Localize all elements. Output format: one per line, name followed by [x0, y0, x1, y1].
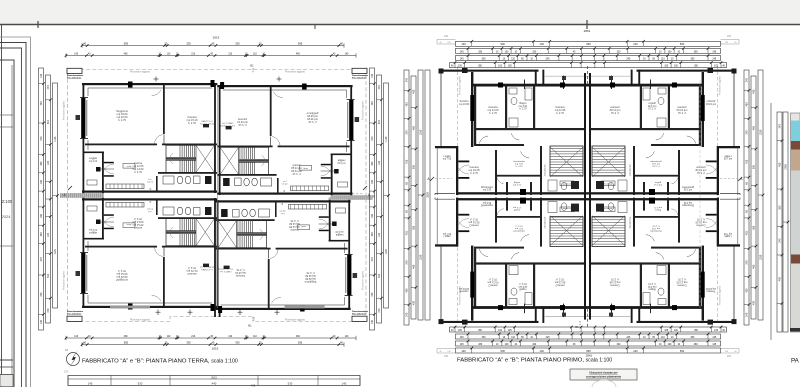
- party wall tails below bottom wall: [214, 308, 216, 317]
- svg-text:470: 470: [47, 85, 50, 90]
- svg-text:150: 150: [444, 355, 449, 358]
- stamp box: [570, 369, 637, 380]
- far right vchain: [777, 112, 782, 332]
- svg-text:N: N: [65, 348, 67, 352]
- svg-text:425: 425: [746, 159, 749, 164]
- svg-text:Proiezione aggetto: Proiezione aggetto: [63, 270, 66, 290]
- svg-text:355: 355: [413, 164, 416, 169]
- svg-text:130: 130: [371, 73, 374, 78]
- right plan unit top-left: [435, 68, 588, 197]
- left plan right vertical chain: [370, 68, 375, 330]
- svg-text:370: 370: [40, 136, 43, 141]
- svg-text:465: 465: [251, 384, 256, 387]
- svg-text:150: 150: [727, 355, 732, 358]
- top frame line: [0, 24, 800, 26]
- svg-text:2500: 2500: [427, 192, 430, 198]
- svg-text:595: 595: [298, 42, 303, 46]
- svg-text:370: 370: [371, 136, 374, 141]
- svg-text:1250: 1250: [760, 129, 763, 135]
- svg-text:450: 450: [406, 288, 409, 293]
- svg-text:240: 240: [746, 130, 749, 135]
- svg-text:730: 730: [40, 292, 43, 297]
- right plan right vchains: [744, 70, 749, 325]
- svg-text:1125: 1125: [54, 136, 57, 142]
- svg-text:PA: PA: [791, 358, 800, 365]
- svg-text:2:100: 2:100: [2, 199, 13, 204]
- unit C bottom-left (mirror): [60, 196, 217, 312]
- svg-text:240: 240: [406, 260, 409, 265]
- svg-text:450: 450: [779, 277, 782, 282]
- svg-text:120: 120: [47, 232, 50, 237]
- top center cross markers: [154, 77, 282, 82]
- svg-text:530: 530: [680, 349, 685, 353]
- svg-text:240: 240: [746, 260, 749, 265]
- svg-text:400: 400: [753, 89, 756, 94]
- svg-text:Fino abbattute: Fino abbattute: [352, 313, 367, 316]
- svg-text:B1: B1: [575, 325, 579, 329]
- svg-text:730: 730: [371, 101, 374, 106]
- svg-text:B1: B1: [250, 64, 254, 68]
- north arrow: [67, 353, 80, 366]
- svg-text:Proiezione aggetto: Proiezione aggetto: [285, 319, 306, 322]
- left plan top chain row2: [66, 55, 356, 57]
- svg-text:FABBRICATO “A” e “B”: PIANTA P: FABBRICATO “A” e “B”: PIANTA PIANO PRIMO…: [457, 358, 612, 364]
- svg-text:530: 530: [288, 382, 293, 386]
- unit B top-right (mirror, slight offset): [217, 82, 374, 198]
- svg-text:140: 140: [633, 42, 638, 46]
- svg-text:530: 530: [680, 42, 685, 46]
- svg-text:1250: 1250: [760, 254, 763, 260]
- left plan left vertical chain: [39, 68, 44, 330]
- adjacent sheet title block fragments: [0, 114, 13, 116]
- svg-text:400: 400: [413, 89, 416, 94]
- svg-text:240: 240: [406, 130, 409, 135]
- right plan center dashed marks: [587, 66, 589, 84]
- svg-text:1125: 1125: [54, 249, 57, 255]
- svg-text:460: 460: [413, 264, 416, 269]
- svg-text:130: 130: [40, 319, 43, 324]
- svg-text:120: 120: [378, 232, 381, 237]
- svg-text:595: 595: [298, 341, 303, 345]
- unit D bottom-right (mirror, slight offset): [215, 198, 372, 314]
- svg-text:1125: 1125: [385, 249, 388, 255]
- left plan: dashed overhang outline (stepped at bottom center): [68, 70, 367, 322]
- svg-text:130: 130: [371, 319, 374, 324]
- right plan unit top-right: [588, 68, 741, 197]
- svg-text:FABBRICATO “A” e “B”: PIANTA P: FABBRICATO “A” e “B”: PIANTA PIANO TERRA…: [82, 359, 238, 365]
- svg-text:B1: B1: [248, 324, 252, 328]
- svg-text:425: 425: [406, 231, 409, 236]
- svg-text:140: 140: [540, 349, 545, 353]
- svg-text:240: 240: [406, 78, 409, 83]
- left plan bottom chain row2: [82, 344, 344, 346]
- unit A top-left: [60, 80, 217, 196]
- svg-text:Proiezione aggetto: Proiezione aggetto: [130, 71, 151, 74]
- faint stamp: [592, 380, 616, 387]
- svg-text:730: 730: [371, 292, 374, 297]
- svg-text:425: 425: [406, 159, 409, 164]
- left plan bottom chain row1: [66, 337, 356, 339]
- downpipe cross markers bottom: [156, 310, 280, 316]
- far right vline: [770, 103, 772, 340]
- svg-text:Proiezione aggetto: Proiezione aggetto: [459, 75, 462, 95]
- svg-text:120: 120: [47, 160, 50, 165]
- svg-text:140: 140: [461, 42, 466, 46]
- svg-text:730: 730: [40, 101, 43, 106]
- svg-text:470: 470: [47, 308, 50, 313]
- svg-text:150: 150: [727, 35, 732, 38]
- svg-text:460: 460: [753, 126, 756, 131]
- svg-text:530: 530: [501, 42, 506, 46]
- svg-text:2015: 2015: [211, 376, 217, 380]
- right plan unit bottom-left: [435, 196, 588, 325]
- svg-text:Proiezione aggetto: Proiezione aggetto: [285, 71, 306, 74]
- svg-text:A´: A´: [63, 193, 66, 197]
- svg-text:Ubicazioni ricavate per: Ubicazioni ricavate per: [589, 371, 617, 375]
- svg-text:300: 300: [371, 232, 374, 237]
- svg-text:470: 470: [378, 308, 381, 313]
- svg-text:530: 530: [138, 382, 143, 386]
- svg-text:400: 400: [413, 301, 416, 306]
- svg-text:440: 440: [212, 382, 217, 386]
- svg-text:510: 510: [378, 273, 381, 278]
- svg-text:160: 160: [371, 179, 374, 184]
- frame tick marks: [37, 21, 39, 28]
- svg-text:140: 140: [633, 349, 638, 353]
- svg-text:2024: 2024: [2, 214, 12, 219]
- svg-text:Proiezione aggetto: Proiezione aggetto: [362, 270, 365, 290]
- svg-text:510: 510: [47, 273, 50, 278]
- svg-text:240: 240: [746, 312, 749, 317]
- svg-text:470: 470: [378, 85, 381, 90]
- svg-text:510: 510: [378, 119, 381, 124]
- adjacent sheet left edge nested frames: [1, 25, 3, 387]
- svg-text:130: 130: [40, 73, 43, 78]
- svg-text:460: 460: [753, 264, 756, 269]
- svg-text:330: 330: [186, 42, 191, 46]
- bottom wall window sections: [110, 306, 150, 309]
- top sheet band: [0, 0, 800, 24]
- svg-text:300: 300: [40, 161, 43, 166]
- svg-text:595: 595: [124, 341, 129, 345]
- svg-text:Fino abbattute: Fino abbattute: [67, 77, 82, 80]
- svg-text:595: 595: [124, 42, 129, 46]
- svg-text:665: 665: [586, 349, 591, 353]
- svg-text:2861: 2861: [584, 29, 591, 33]
- svg-text:355: 355: [753, 225, 756, 230]
- adjacent sheet bottom corner: [0, 359, 13, 361]
- right plan unit bottom-right: [588, 196, 741, 325]
- svg-text:350: 350: [779, 205, 782, 210]
- svg-text:355: 355: [753, 164, 756, 169]
- svg-text:370: 370: [40, 257, 43, 262]
- svg-text:240: 240: [779, 124, 782, 129]
- svg-text:150: 150: [444, 35, 449, 38]
- svg-text:450: 450: [746, 288, 749, 293]
- svg-text:Proiezione aggetto: Proiezione aggetto: [130, 319, 151, 322]
- svg-text:140: 140: [540, 42, 545, 46]
- left plan center seam vertical: [216, 83, 218, 308]
- svg-text:145: 145: [88, 382, 93, 386]
- svg-text:140: 140: [461, 349, 466, 353]
- right plan left vchains: [404, 70, 409, 325]
- svg-text:150: 150: [64, 370, 69, 374]
- svg-text:Proiezione aggetto: Proiezione aggetto: [718, 285, 721, 305]
- svg-text:510: 510: [47, 119, 50, 124]
- svg-text:425: 425: [746, 231, 749, 236]
- right plan dashed proiezione right: [699, 80, 701, 310]
- corner label boxes: [67, 68, 82, 73]
- svg-text:Proiezione aggetto: Proiezione aggetto: [718, 75, 721, 95]
- svg-text:300: 300: [40, 232, 43, 237]
- svg-text:330: 330: [235, 42, 240, 46]
- svg-text:145: 145: [342, 382, 347, 386]
- svg-text:2015: 2015: [213, 36, 220, 40]
- svg-text:240: 240: [779, 238, 782, 243]
- svg-text:665: 665: [586, 42, 591, 46]
- svg-text:Fino abbattute: Fino abbattute: [67, 313, 82, 316]
- svg-text:355: 355: [413, 225, 416, 230]
- svg-text:450: 450: [779, 162, 782, 167]
- elevation color strip: [791, 113, 800, 332]
- svg-text:sovrapposizione planimetrie: sovrapposizione planimetrie: [586, 375, 622, 379]
- svg-text:160: 160: [40, 179, 43, 184]
- svg-text:240: 240: [746, 78, 749, 83]
- svg-text:160: 160: [40, 213, 43, 218]
- svg-text:330: 330: [235, 341, 240, 345]
- svg-text:530: 530: [501, 349, 506, 353]
- svg-text:160: 160: [371, 213, 374, 218]
- svg-text:120: 120: [378, 160, 381, 165]
- svg-text:450: 450: [406, 102, 409, 107]
- svg-text:Fino abbattute: Fino abbattute: [352, 77, 367, 80]
- svg-text:Proiezione aggetto: Proiezione aggetto: [63, 100, 66, 120]
- svg-text:1125: 1125: [385, 136, 388, 142]
- svg-text:Proiezione aggetto: Proiezione aggetto: [362, 100, 365, 120]
- left plan top chain row1: [82, 45, 344, 47]
- svg-text:330: 330: [186, 341, 191, 345]
- svg-text:240: 240: [406, 312, 409, 317]
- svg-text:1250: 1250: [420, 129, 423, 135]
- svg-text:400: 400: [753, 301, 756, 306]
- svg-text:1250: 1250: [420, 254, 423, 260]
- svg-text:450: 450: [746, 102, 749, 107]
- svg-text:2760: 2760: [785, 164, 788, 170]
- svg-text:370: 370: [371, 257, 374, 262]
- right plan dashed overhang verticals: [457, 66, 459, 324]
- svg-text:2015: 2015: [212, 347, 219, 351]
- svg-text:300: 300: [371, 161, 374, 166]
- right plan bottom dims: [450, 327, 727, 332]
- svg-text:460: 460: [413, 126, 416, 131]
